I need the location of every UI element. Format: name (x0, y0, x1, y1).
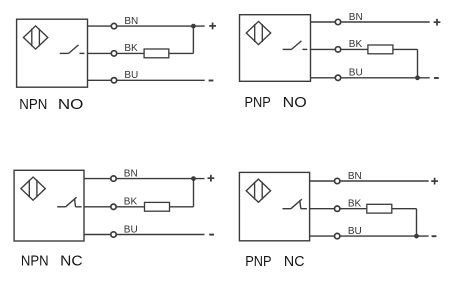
terminal + PNP NC (431, 178, 438, 185)
wire resistor to junction NPN NC (170, 206, 194, 208)
svg-text:BN: BN (348, 171, 362, 182)
wire BU NPN NO (88, 79, 205, 81)
pin circle BK PNP NC (335, 206, 340, 211)
proximity sensor symbol (diamond) PNP NO (246, 21, 270, 44)
terminal - NPN NC (209, 234, 214, 236)
wire resistor to junction PNP NC (392, 208, 417, 210)
load resistor NPN NO (144, 49, 169, 58)
junction node on BN NPN NC (191, 176, 196, 181)
proximity sensor symbol (diamond) NPN NC (21, 177, 45, 200)
svg-text:BK: BK (124, 43, 138, 54)
caption NPN NO (19, 96, 83, 113)
wire junction vertical PNP NO (417, 49, 419, 77)
terminal + PNP NO (434, 19, 441, 26)
svg-text:BK: BK (348, 199, 362, 210)
svg-text:BU: BU (124, 224, 138, 235)
svg-text:BN: BN (349, 12, 363, 23)
wire BK NPN NC (84, 206, 145, 208)
wire BU NPN NC (84, 234, 205, 236)
wire junction vertical NPN NC (193, 179, 195, 207)
wire BK PNP NC (310, 208, 367, 210)
wire BN PNP NO (311, 21, 430, 23)
terminal - PNP NC (432, 235, 437, 237)
svg-text:PNP: PNP (245, 253, 271, 270)
svg-text:BK: BK (124, 197, 138, 208)
caption PNP NC (245, 253, 304, 270)
wire BU PNP NO (311, 77, 430, 79)
svg-text:NC: NC (60, 253, 83, 270)
pin circle BN PNP NO (335, 19, 340, 24)
svg-text:BU: BU (348, 226, 362, 237)
load resistor NPN NC (145, 202, 170, 211)
sensor box PNP NO (240, 15, 311, 82)
terminal + NPN NO (209, 23, 216, 30)
pin circle BU NPN NO (111, 78, 116, 83)
pin circle BK NPN NC (111, 204, 116, 209)
pin circle BU NPN NC (111, 232, 116, 237)
svg-text:BN: BN (124, 168, 138, 179)
wire BK PNP NO (311, 48, 368, 50)
pin circle BN PNP NC (335, 178, 340, 183)
NC switch contact NPN NC (57, 197, 81, 207)
svg-text:NPN: NPN (19, 96, 47, 113)
pin circle BN NPN NO (111, 23, 116, 28)
sensor box NPN NC (14, 170, 84, 241)
sensor box NPN NO (17, 19, 88, 87)
pin circle BK NPN NO (111, 51, 116, 56)
terminal - NPN NO (209, 80, 214, 82)
wire resistor to junction PNP NO (393, 48, 418, 50)
NC switch contact PNP NC (283, 199, 307, 209)
wire BU PNP NC (310, 235, 429, 237)
wire BN NPN NC (84, 178, 205, 180)
svg-text:BU: BU (124, 70, 138, 81)
svg-text:NO: NO (283, 94, 307, 111)
pin circle BU PNP NO (335, 75, 340, 80)
terminal + NPN NC (208, 175, 215, 182)
caption NPN NC (21, 253, 83, 270)
pin circle BU PNP NC (335, 233, 340, 238)
svg-text:BK: BK (349, 39, 363, 50)
svg-text:NPN: NPN (21, 253, 49, 270)
svg-text:BN: BN (124, 16, 138, 27)
junction node on BU PNP NC (414, 234, 419, 239)
wire BK NPN NO (88, 52, 145, 54)
pin circle BN NPN NC (111, 176, 116, 181)
junction node on BU PNP NO (415, 75, 420, 80)
caption PNP NO (245, 94, 307, 111)
NO switch contact NPN NO (60, 45, 85, 54)
wire BN PNP NC (310, 180, 429, 182)
proximity sensor symbol (diamond) NPN NO (23, 26, 47, 49)
wire junction vertical PNP NC (416, 209, 418, 236)
load resistor PNP NC (367, 204, 392, 213)
NO switch contact PNP NO (283, 41, 308, 50)
svg-text:PNP: PNP (245, 94, 271, 111)
wire resistor to junction NPN NO (169, 52, 194, 54)
terminal - PNP NO (434, 77, 439, 79)
load resistor PNP NO (368, 45, 393, 54)
svg-text:NC: NC (284, 253, 305, 270)
pin circle BK PNP NO (335, 47, 340, 52)
wire BN NPN NO (88, 25, 205, 27)
svg-text:BU: BU (349, 68, 363, 79)
junction node on BN NPN NO (191, 24, 196, 29)
wire junction vertical NPN NO (192, 26, 194, 53)
proximity sensor symbol (diamond) PNP NC (246, 179, 270, 202)
sensor box PNP NC (239, 172, 309, 240)
svg-text:NO: NO (58, 96, 84, 113)
